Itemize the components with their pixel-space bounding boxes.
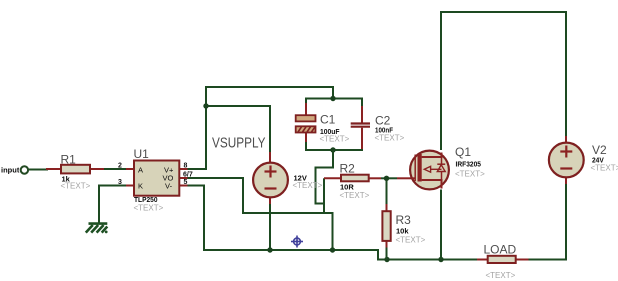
transistor Q1 IRF3205 xyxy=(397,145,485,189)
svg-text:<TEXT>: <TEXT> xyxy=(61,182,91,191)
channel thick bar xyxy=(418,154,422,182)
node: junction dot (270,250) xyxy=(267,247,272,252)
ground xyxy=(86,224,108,234)
svg-text:<TEXT>: <TEXT> xyxy=(340,191,370,200)
svg-text:<TEXT>: <TEXT> xyxy=(320,134,350,143)
resistor R1 xyxy=(46,153,104,191)
wire: gate node segment R2 to Q1 xyxy=(381,177,397,179)
svg-text:8: 8 xyxy=(184,162,188,169)
svg-text:R3: R3 xyxy=(396,213,412,227)
svg-text:3: 3 xyxy=(118,179,122,186)
wire: pin5 V- down to lower bus xyxy=(187,186,477,260)
wire: R3 bottom to bus xyxy=(386,247,388,260)
op-amp U1 TLP250 xyxy=(118,147,193,213)
svg-text:<TEXT>: <TEXT> xyxy=(293,181,323,190)
svg-text:IRF3205: IRF3205 xyxy=(456,160,482,169)
svg-text:<TEXT>: <TEXT> xyxy=(375,133,405,142)
svg-text:C1: C1 xyxy=(320,112,336,126)
wire: C1/C2 bottom tie y=150 xyxy=(306,141,362,150)
wire: pin8 V+ riser x=206 xyxy=(187,106,206,169)
wire: C1/C2 top tie y=98.5 xyxy=(306,99,362,108)
gate thin bar xyxy=(414,155,416,182)
svg-text:V-: V- xyxy=(165,182,173,191)
svg-text:<TEXT>: <TEXT> xyxy=(396,236,426,245)
svg-text:Q1: Q1 xyxy=(455,145,471,159)
svg-text:6/7: 6/7 xyxy=(183,171,193,178)
svg-text:K: K xyxy=(138,182,143,191)
wire: R1 to pin2 xyxy=(103,168,126,170)
wire: ground return jog from C1/C2 node xyxy=(316,150,334,204)
wire: VSUPPLY minus drop x=270 xyxy=(269,203,271,250)
svg-text:<TEXT>: <TEXT> xyxy=(134,204,164,213)
node: junction dot (386.5,178.3) xyxy=(384,176,389,181)
node: junction dot (441,259.5) xyxy=(438,257,443,262)
svg-text:LOAD: LOAD xyxy=(484,243,517,257)
battery V2 24V source xyxy=(549,136,618,184)
source tap xyxy=(422,180,442,189)
node: junction dot (387,259.5) xyxy=(384,257,389,262)
wire: VO route pin6/7 to R2 xyxy=(187,178,333,250)
wire: input to R1 xyxy=(29,169,49,171)
node: origin marker xyxy=(291,236,303,248)
svg-text:<TEXT>: <TEXT> xyxy=(455,169,485,178)
resistor R3 10k xyxy=(382,204,425,248)
body diode xyxy=(441,157,443,165)
node: junction dot (206,106) xyxy=(203,103,208,108)
svg-text:10k: 10k xyxy=(396,227,409,236)
drain tap xyxy=(422,153,442,158)
wire: LOAD right to V2 bottom xyxy=(528,183,566,260)
svg-text:2: 2 xyxy=(118,162,122,169)
svg-text:5: 5 xyxy=(184,179,188,186)
wire: R3 top drop xyxy=(386,178,388,204)
resistor LOAD xyxy=(477,243,529,281)
svg-text:VSUPPLY: VSUPPLY xyxy=(212,135,266,152)
battery VSUPPLY 12V source xyxy=(253,152,323,204)
wire: branch up to R2 left lead x=324 xyxy=(323,178,325,213)
node: junction dot (333,98.5) xyxy=(330,96,335,101)
node: junction dot (333,150) xyxy=(330,147,335,152)
svg-text:R1: R1 xyxy=(61,153,77,167)
svg-text:<TEXT>: <TEXT> xyxy=(591,163,618,172)
capacitor C2 100nF xyxy=(351,106,405,149)
input terminal xyxy=(21,166,28,173)
capacitor C1 100uF xyxy=(296,103,350,143)
resistor R2 10R xyxy=(324,162,381,201)
wire: pin3 to ground xyxy=(99,186,126,223)
wire: Q1 source down xyxy=(440,190,442,260)
svg-text:U1: U1 xyxy=(134,147,150,161)
svg-text:<TEXT>: <TEXT> xyxy=(486,271,516,280)
wire: 12V+ top horizontal y=87 xyxy=(206,87,333,106)
svg-text:A: A xyxy=(138,165,143,174)
node: junction dot (332.5,250) xyxy=(330,247,335,252)
mid tap arrow xyxy=(424,166,430,172)
svg-text:input: input xyxy=(1,166,20,175)
wire: Q1 drain loop to V2 top xyxy=(441,12,566,150)
svg-text:R2: R2 xyxy=(340,162,356,176)
wire: VSUPPLY top branch y=106 xyxy=(206,106,270,153)
